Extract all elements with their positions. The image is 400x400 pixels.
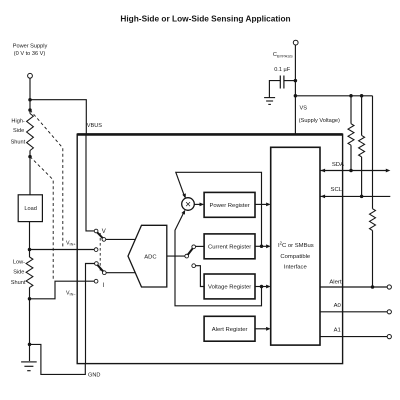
switch ADC arm — [188, 248, 193, 255]
resistor Alert pullup — [370, 96, 376, 287]
wire VS drop — [294, 45, 296, 134]
switch V output node — [102, 238, 106, 242]
svg-text:Current Register: Current Register — [208, 245, 251, 251]
multiplier X — [182, 198, 195, 211]
wire shunt to load — [29, 157, 31, 195]
wire VIN- sense — [30, 281, 95, 299]
resistor SCL pullup — [359, 96, 365, 197]
svg-text:Voltage Register: Voltage Register — [208, 285, 251, 291]
wire ADC output — [167, 255, 185, 257]
load — [18, 195, 42, 222]
Alert pin label — [329, 279, 341, 285]
wire current register to interface — [255, 244, 271, 248]
capacitor CBYPASS label — [273, 52, 293, 73]
svg-text:Alert: Alert — [329, 279, 341, 285]
wire voltage register to interface — [255, 285, 271, 289]
node pullup rail junction — [294, 94, 298, 98]
resistor low-side shunt — [26, 257, 33, 288]
VBUS pin label — [87, 123, 103, 129]
wire VIN+ sense — [30, 249, 95, 251]
wire VBUS to V switch — [86, 134, 94, 231]
wire to VBUS pin — [30, 100, 86, 135]
A1 pin label — [334, 328, 341, 334]
voltage register — [204, 274, 255, 299]
wire power register to interface — [255, 203, 271, 207]
svg-text:Shunt: Shunt — [11, 280, 26, 286]
svg-text:Side: Side — [13, 269, 24, 275]
dashed switch linkage — [99, 233, 101, 272]
VS supply terminal — [293, 40, 298, 45]
switch ADC pole — [185, 254, 189, 258]
ground symbol left — [21, 362, 37, 371]
node bypass junction — [294, 79, 298, 83]
resistor SDA pullup — [348, 96, 354, 171]
switch I throw vin- — [94, 279, 98, 283]
svg-text:CBYPASS: CBYPASS — [273, 52, 293, 59]
svg-text:(0 V to 36 V): (0 V to 36 V) — [14, 51, 46, 57]
power supply terminal — [28, 73, 33, 78]
svg-text:×: × — [185, 199, 191, 210]
VIN+ pin label — [66, 240, 76, 246]
svg-text:Interface: Interface — [284, 265, 308, 271]
IC boundary box — [77, 134, 342, 363]
wire voltage feedback to multiplier — [175, 210, 262, 306]
svg-text:Compatible: Compatible — [280, 254, 311, 260]
Alert terminal — [387, 285, 391, 289]
svg-text:ADC: ADC — [144, 255, 156, 261]
node high-side shunt bottom — [28, 155, 32, 159]
A1 terminal — [387, 335, 391, 339]
GND pin label — [88, 372, 100, 378]
wire multiplier to power register — [194, 203, 204, 207]
svg-text:Load: Load — [24, 206, 36, 212]
A0 terminal — [387, 310, 391, 314]
wire cap right — [284, 80, 296, 82]
svg-text:SDA: SDA — [332, 162, 344, 168]
wire SDA — [320, 169, 390, 173]
capacitor CBYPASS — [280, 76, 284, 89]
svg-text:VBUS: VBUS — [87, 123, 103, 129]
wire alert register to interface — [255, 327, 271, 331]
high-side shunt label — [11, 118, 26, 145]
switch I arm — [97, 265, 103, 272]
svg-text:V: V — [102, 229, 106, 235]
dashed wire high-side to VIN+ — [30, 110, 63, 249]
SCL pin label — [331, 187, 343, 193]
switch I label — [103, 283, 105, 289]
svg-text:Power Register: Power Register — [209, 203, 249, 209]
wire shunt to ground — [29, 288, 31, 362]
switch V throw vin+ — [94, 248, 98, 252]
wire to voltage register — [196, 266, 205, 287]
power supply label — [13, 43, 48, 56]
resistor high-side shunt — [27, 114, 34, 151]
interface block I2C — [271, 147, 320, 345]
power register — [204, 192, 255, 217]
svg-text:SCL: SCL — [331, 187, 343, 193]
VS pin label — [299, 106, 340, 124]
low-side shunt label — [11, 259, 26, 286]
title — [120, 13, 290, 23]
op-amp ADC block — [128, 225, 167, 287]
wire V switch to ADC — [106, 238, 135, 240]
wire A0 — [320, 311, 387, 313]
VIN- pin label — [66, 290, 76, 296]
svg-text:(Supply Voltage): (Supply Voltage) — [299, 118, 340, 124]
wire SCL — [320, 195, 390, 199]
SDA pin label — [332, 162, 344, 168]
svg-text:High-Side or Low-Side Sensing: High-Side or Low-Side Sensing Applicatio… — [120, 13, 290, 23]
wire pullup rail — [295, 94, 372, 98]
svg-text:High-: High- — [11, 118, 25, 124]
node ground junction — [28, 343, 32, 347]
node high-side shunt top — [28, 108, 32, 112]
alert register — [204, 316, 255, 341]
svg-text:A1: A1 — [334, 328, 341, 334]
switch I output node — [102, 271, 106, 275]
wire Alert — [320, 285, 387, 289]
wire load to vin+ node — [29, 222, 31, 257]
node vin+ tap — [28, 248, 32, 252]
switch ADC throw voltage — [192, 264, 196, 268]
svg-text:Side: Side — [13, 128, 24, 134]
VBUS thick rail (top edge) — [77, 133, 342, 136]
ground symbol bypass — [264, 98, 275, 105]
current register — [204, 234, 255, 259]
wire supply drop — [29, 78, 31, 110]
switch I pole — [95, 262, 99, 266]
wire shunt top stub — [29, 110, 31, 157]
switch V pole — [94, 229, 98, 233]
node vin- tap — [28, 297, 32, 301]
wire I switch to ADC — [106, 272, 136, 274]
svg-text:A0: A0 — [334, 303, 342, 309]
svg-text:Alert Register: Alert Register — [212, 327, 248, 333]
wire GND to I switch — [86, 264, 95, 364]
svg-text:GND: GND — [88, 372, 100, 378]
node supply junction — [28, 98, 32, 102]
svg-text:0.1 µF: 0.1 µF — [274, 67, 291, 73]
wire A1 — [320, 336, 387, 338]
wire current feedback to multiplier — [176, 172, 262, 246]
switch V arm — [97, 232, 103, 239]
wire to current register — [196, 245, 205, 247]
svg-text:VS: VS — [300, 106, 308, 112]
A0 pin label — [334, 303, 342, 309]
wire ground return to GND pin — [30, 344, 86, 374]
dashed wire high-side to VIN- — [30, 157, 53, 280]
svg-text:Shunt: Shunt — [11, 139, 26, 145]
switch V label — [102, 229, 106, 235]
svg-text:Power Supply: Power Supply — [13, 43, 48, 49]
svg-text:Low-: Low- — [13, 259, 25, 265]
wire cap left to ground — [269, 81, 280, 98]
switch ADC throw current — [192, 245, 196, 249]
